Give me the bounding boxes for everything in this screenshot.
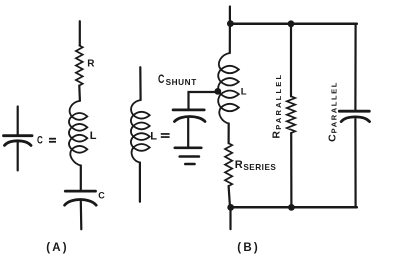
junction node bottom left of B <box>227 204 234 211</box>
bottom terminal stub of circuit B <box>229 208 231 230</box>
capacitor C curved bottom plate <box>5 141 32 146</box>
junction node top middle of B <box>288 20 295 27</box>
svg-text:C: C <box>98 190 105 200</box>
svg-text:L: L <box>241 87 247 98</box>
inductor L (branch A) <box>69 101 87 166</box>
capacitor Cparallel curved plate <box>341 117 369 122</box>
junction node Cshunt tap <box>214 88 221 95</box>
svg-text:C: C <box>37 135 43 147</box>
svg-text:L: L <box>150 130 157 142</box>
svg-text:R: R <box>87 59 95 70</box>
equals sign (B) <box>161 133 170 138</box>
ground bar 2 <box>180 155 199 158</box>
svg-text:C: C <box>158 72 165 86</box>
wire bottom of middle inductor <box>139 163 141 202</box>
capacitor C (branch A) curved plate <box>65 200 97 206</box>
wire top of middle inductor <box>139 67 142 100</box>
svg-text:CPARALLEL: CPARALLEL <box>326 81 338 142</box>
wire from top rail to Cparallel <box>354 24 356 110</box>
junction node bottom middle of B <box>288 204 295 211</box>
svg-text:L: L <box>90 130 97 142</box>
ground bar 3 <box>185 163 194 166</box>
wire bottom of left capacitor <box>17 143 19 171</box>
capacitor C (branch A) top plate <box>65 190 95 193</box>
capacitor Cshunt top plate <box>173 109 204 112</box>
svg-text:(A): (A) <box>46 242 69 254</box>
wire from top rail to inductor L (circuit B) <box>229 24 231 54</box>
wire bottom of branch A <box>80 202 83 230</box>
resistor Rseries <box>225 143 232 186</box>
wire top of left capacitor <box>17 107 19 135</box>
capacitor Cparallel top plate <box>339 110 369 113</box>
wire from Cshunt node to capacitor <box>189 92 218 109</box>
wire between L and C (branch A) <box>80 166 82 190</box>
wire from Cparallel to bottom rail <box>354 119 356 207</box>
svg-text:RPARALLEL: RPARALLEL <box>271 73 284 139</box>
svg-text:RSERIES: RSERIES <box>235 159 277 172</box>
svg-text:SHUNT: SHUNT <box>166 78 197 87</box>
wire from top rail to Rparallel <box>290 24 292 97</box>
resistor Rparallel <box>287 96 295 133</box>
bottom rail of circuit B <box>231 206 357 209</box>
wire top of branch A <box>79 21 81 45</box>
inductor L (middle, equivalent symbol) <box>131 100 150 163</box>
capacitor C top plate <box>4 134 33 137</box>
equals sign (A) <box>49 138 56 143</box>
wire from Rseries to bottom rail <box>229 186 230 207</box>
wire from Rparallel to bottom rail <box>290 133 292 207</box>
svg-text:(B): (B) <box>237 242 260 254</box>
top rail of circuit B <box>231 22 357 25</box>
capacitor Cshunt curved plate <box>175 116 206 121</box>
ground bar 1 <box>175 147 202 150</box>
inductor L (circuit B) <box>218 53 239 124</box>
top terminal stub of circuit B <box>229 7 231 24</box>
junction node top left of B <box>227 20 234 27</box>
resistor R (branch A) <box>76 46 83 86</box>
wire between L and Rseries (circuit B) <box>228 124 230 144</box>
wire between R and L (branch A) <box>78 86 81 101</box>
wire from Cshunt to ground <box>187 119 189 147</box>
